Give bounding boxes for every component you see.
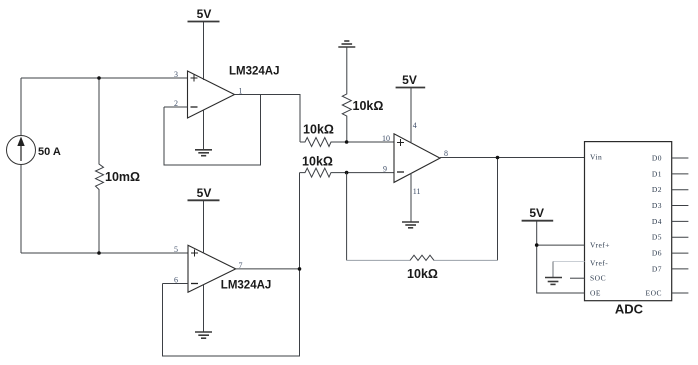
node U2 output junction (298, 267, 302, 271)
wire D6 stub (672, 252, 689, 254)
wire EOC stub (672, 292, 689, 294)
svg-text:9: 9 (383, 165, 387, 174)
wire top from current source to U1 + input (21, 77, 188, 79)
op-amp U2 LM324AJ bottom (188, 245, 236, 292)
wire U2 5V stem (203, 200, 205, 254)
svg-text:D0: D0 (652, 154, 662, 163)
svg-text:10kΩ: 10kΩ (407, 267, 438, 281)
wire ADC ground stem (552, 262, 554, 278)
resistor R1 10mOhm vertical (96, 78, 104, 253)
svg-text:OE: OE (590, 289, 601, 298)
ground U2 (195, 332, 212, 338)
svg-text:D4: D4 (652, 217, 662, 226)
wire U2 feedback loop (163, 269, 300, 356)
svg-text:ADC: ADC (615, 302, 644, 317)
svg-text:3: 3 (174, 70, 178, 79)
wire U3 feedback right vertical (497, 158, 499, 261)
power 5V U1 (188, 21, 220, 23)
power 5V U2 (188, 199, 220, 201)
node U3 output junction (496, 156, 500, 160)
svg-text:50 A: 50 A (38, 146, 61, 158)
wire Vref+ horizontal (537, 244, 585, 246)
node B junction bottom (97, 251, 101, 255)
wire U1 feedback loop (164, 95, 261, 166)
wire U2 ground stem (203, 285, 205, 332)
svg-text:Vref-: Vref- (590, 258, 608, 267)
wire U1 ground stem (203, 111, 205, 150)
wire U3 feedback left vertical (346, 173, 348, 261)
wire D4 stub (672, 220, 689, 222)
wire D5 stub (672, 236, 689, 238)
wire U1 inverting input stub (164, 106, 188, 108)
ground ADC (545, 278, 562, 285)
svg-text:D7: D7 (652, 264, 662, 273)
svg-text:D6: D6 (652, 249, 662, 258)
svg-text:5: 5 (174, 245, 178, 254)
svg-text:4: 4 (413, 121, 417, 130)
op-amp U3 (394, 134, 440, 183)
wire D3 stub (672, 205, 689, 207)
svg-text:LM324AJ: LM324AJ (229, 66, 280, 78)
node R2/R4 junction (345, 140, 349, 144)
wire D7 stub (672, 268, 689, 270)
svg-text:10kΩ: 10kΩ (353, 99, 384, 113)
svg-text:D2: D2 (652, 185, 662, 194)
wire bottom from current source to U2 + input (21, 252, 188, 254)
op-amp U1 LM324AJ top (188, 71, 235, 118)
wire R3 to pin 9 (347, 172, 394, 174)
svg-text:11: 11 (413, 187, 421, 196)
node A junction top (97, 76, 101, 80)
wire left vertical through current source (20, 78, 22, 253)
svg-text:10kΩ: 10kΩ (303, 122, 334, 136)
wire U2 output (236, 268, 300, 270)
power 5V U3 (396, 87, 426, 89)
power 5V ADC (522, 220, 554, 222)
wire R2 to pin 10 (347, 141, 394, 143)
resistor R5 10k zigzag (410, 255, 434, 260)
wire U1 output (235, 95, 301, 143)
svg-text:EOC: EOC (646, 289, 663, 298)
resistor R4 10k vertical to ground (342, 47, 351, 142)
resistor R2 10k to U3 + input (300, 138, 347, 147)
current source I1 (7, 136, 36, 165)
wire D1 stub (672, 173, 689, 175)
ADC U4 box (585, 142, 672, 301)
wire U2 inverting input stub (163, 283, 189, 285)
svg-text:D3: D3 (652, 201, 662, 210)
ground top (inverted) (338, 41, 355, 47)
wire 5V to Vref+ (537, 221, 585, 293)
svg-text:10: 10 (382, 134, 390, 143)
svg-text:Vref+: Vref+ (590, 241, 610, 250)
wire ground to Vref- (light) (553, 261, 585, 263)
wire U3 feedback bottom with resistor R5 (347, 259, 498, 261)
svg-text:10mΩ: 10mΩ (105, 170, 140, 184)
resistor R3 10k to U3 - input (300, 168, 347, 177)
svg-text:5V: 5V (529, 206, 544, 220)
svg-text:5V: 5V (197, 7, 212, 21)
svg-text:5V: 5V (197, 186, 212, 200)
svg-text:10kΩ: 10kΩ (302, 154, 333, 168)
ground U1 (195, 150, 212, 156)
wire D0 stub (672, 157, 689, 159)
svg-text:8: 8 (444, 149, 448, 158)
wire U3 ground stem pin11 (410, 173, 412, 222)
node Vref+ junction (535, 243, 539, 247)
wire U3 5V stem pin4 (410, 88, 412, 144)
node R3 junction (345, 171, 349, 175)
svg-text:D5: D5 (652, 233, 662, 242)
wire U3 output to ADC Vin (440, 157, 585, 159)
wire U2 output to R3 vertical (299, 173, 301, 269)
ground U3 (402, 222, 419, 228)
svg-text:Vin: Vin (590, 153, 602, 162)
wire D2 stub (672, 189, 689, 191)
wire SOC stub (570, 277, 585, 279)
svg-text:LM324AJ: LM324AJ (221, 279, 271, 291)
svg-text:SOC: SOC (590, 274, 606, 283)
svg-text:5V: 5V (402, 73, 417, 87)
svg-text:D1: D1 (652, 169, 662, 178)
wire U1 5V stem (203, 22, 205, 81)
